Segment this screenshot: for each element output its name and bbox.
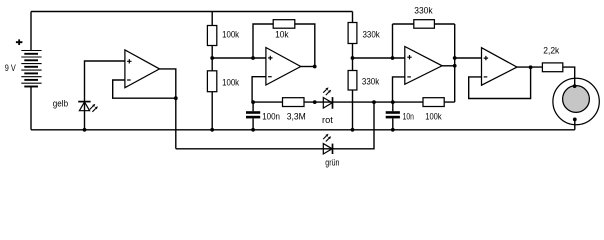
svg-text:330k: 330k [414,6,433,16]
svg-text:gelb: gelb [53,99,68,109]
svg-text:grün: grün [325,158,339,168]
svg-text:rot: rot [322,115,333,125]
svg-text:100k: 100k [222,30,240,40]
svg-text:100k: 100k [222,77,240,87]
svg-text:330k: 330k [363,30,381,40]
svg-text:2,2k: 2,2k [543,46,560,56]
svg-text:9 V: 9 V [5,63,16,73]
svg-text:10k: 10k [275,30,289,40]
svg-text:100n: 100n [262,111,280,121]
svg-text:100k: 100k [425,111,442,121]
svg-text:330k: 330k [362,77,380,87]
svg-text:3,3M: 3,3M [287,111,306,121]
svg-text:10n: 10n [403,111,414,121]
